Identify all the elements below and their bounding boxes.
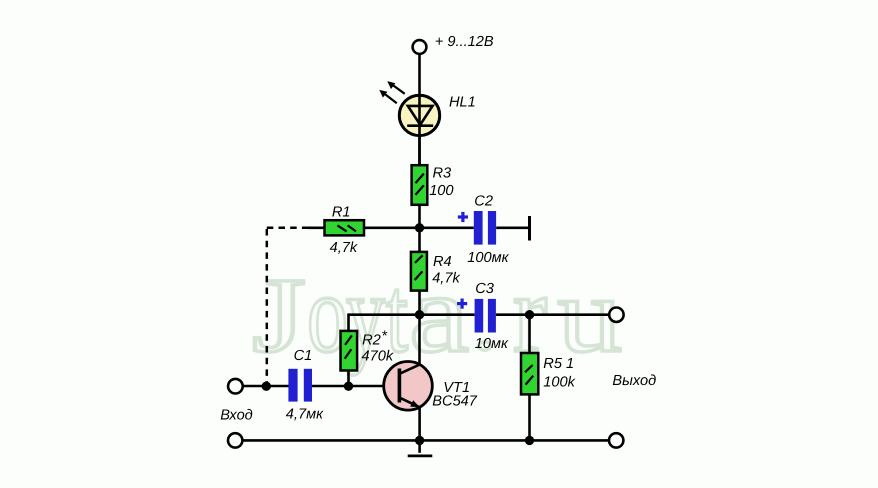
svg-text:R1: R1: [332, 204, 351, 220]
svg-text:Выход: Выход: [612, 373, 656, 389]
svg-text:4,7мк: 4,7мк: [286, 406, 324, 422]
svg-text:4,7k: 4,7k: [432, 271, 460, 287]
svg-text:C1: C1: [294, 348, 313, 364]
svg-text:R4: R4: [433, 254, 452, 270]
svg-text:10мк: 10мк: [475, 336, 509, 352]
svg-text:R3: R3: [433, 165, 452, 181]
svg-text:R2: R2: [362, 333, 381, 349]
svg-text:R5 1: R5 1: [543, 356, 574, 372]
svg-text:C2: C2: [474, 194, 493, 210]
svg-text:100: 100: [429, 183, 453, 199]
svg-text:Вход: Вход: [220, 408, 253, 424]
svg-text:+ 9...12В: + 9...12В: [435, 34, 494, 50]
svg-text:470k: 470k: [362, 348, 394, 364]
svg-text:100k: 100k: [543, 374, 575, 390]
svg-text:HL1: HL1: [449, 95, 476, 111]
svg-text:C3: C3: [475, 281, 494, 297]
svg-text:BC547: BC547: [432, 394, 478, 410]
svg-text:100мк: 100мк: [467, 250, 509, 266]
svg-text:4,7k: 4,7k: [330, 240, 358, 256]
